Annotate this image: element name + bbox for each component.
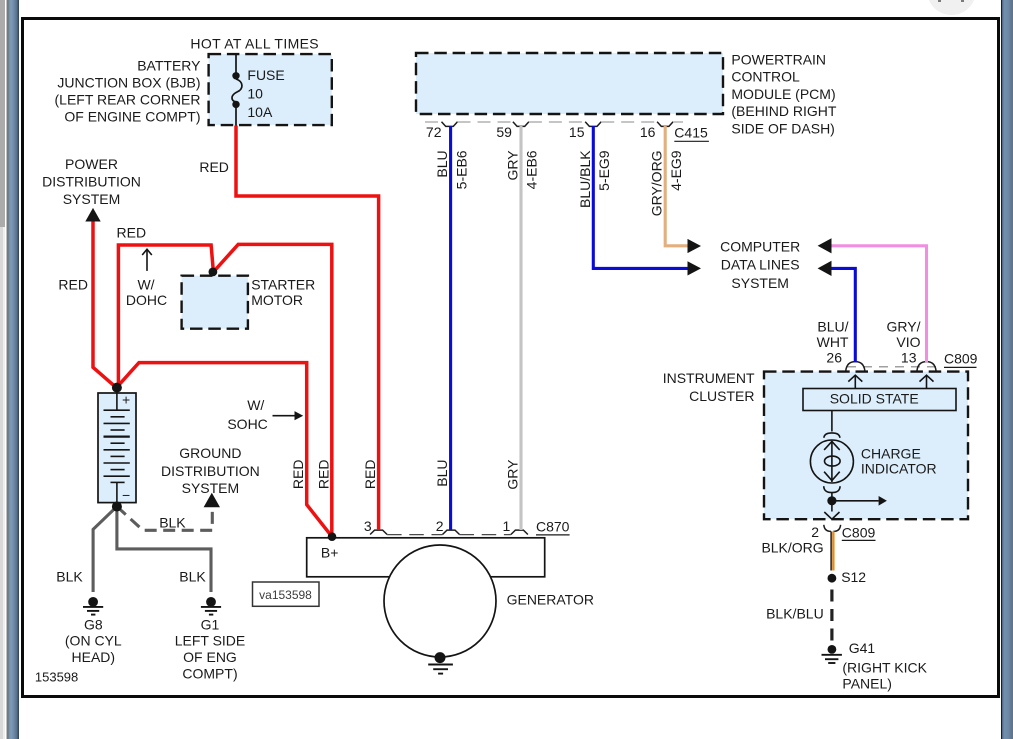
svg-text:RED: RED bbox=[199, 159, 229, 175]
svg-text:RED: RED bbox=[117, 224, 147, 240]
svg-text:VIO: VIO bbox=[896, 334, 920, 350]
svg-text:(LEFT REAR CORNER: (LEFT REAR CORNER bbox=[55, 92, 201, 108]
svg-text:CONTROL: CONTROL bbox=[731, 69, 800, 85]
svg-text:DISTRIBUTION: DISTRIBUTION bbox=[42, 174, 141, 190]
svg-text:BLK/BLU: BLK/BLU bbox=[766, 606, 824, 622]
svg-text:5-EG9: 5-EG9 bbox=[596, 150, 612, 191]
svg-text:DOHC: DOHC bbox=[126, 292, 167, 308]
svg-text:1: 1 bbox=[503, 518, 511, 534]
svg-text:STARTER: STARTER bbox=[251, 277, 315, 293]
svg-text:COMPUTER: COMPUTER bbox=[720, 238, 800, 254]
svg-text:4-EG9: 4-EG9 bbox=[668, 150, 684, 191]
svg-text:(BEHIND RIGHT: (BEHIND RIGHT bbox=[731, 103, 836, 119]
svg-text:CLUSTER: CLUSTER bbox=[689, 388, 754, 404]
svg-text:HOT AT ALL TIMES: HOT AT ALL TIMES bbox=[190, 36, 319, 52]
svg-text:15: 15 bbox=[569, 124, 585, 140]
svg-text:DISTRIBUTION: DISTRIBUTION bbox=[161, 463, 260, 479]
svg-text:BLU/: BLU/ bbox=[817, 319, 848, 335]
svg-text:SIDE OF DASH): SIDE OF DASH) bbox=[731, 120, 834, 136]
svg-text:RED: RED bbox=[362, 460, 378, 490]
svg-text:(ON CYL: (ON CYL bbox=[65, 633, 122, 649]
svg-text:HEAD): HEAD) bbox=[72, 649, 116, 665]
svg-text:POWER: POWER bbox=[65, 156, 118, 172]
svg-text:3: 3 bbox=[364, 518, 372, 534]
svg-text:5-EB6: 5-EB6 bbox=[453, 150, 469, 189]
svg-text:BLU: BLU bbox=[434, 150, 450, 177]
svg-text:FUSE: FUSE bbox=[247, 67, 284, 83]
svg-text:LEFT SIDE: LEFT SIDE bbox=[175, 633, 246, 649]
svg-text:SYSTEM: SYSTEM bbox=[731, 275, 789, 291]
svg-text:INSTRUMENT: INSTRUMENT bbox=[663, 370, 755, 386]
svg-text:MODULE (PCM): MODULE (PCM) bbox=[731, 86, 835, 102]
svg-text:W/: W/ bbox=[247, 397, 264, 413]
svg-text:2: 2 bbox=[436, 518, 444, 534]
svg-text:153598: 153598 bbox=[35, 670, 78, 685]
svg-text:4-EB6: 4-EB6 bbox=[524, 150, 540, 189]
svg-text:BATTERY: BATTERY bbox=[137, 57, 201, 73]
svg-text:G41: G41 bbox=[849, 640, 876, 656]
svg-text:C870: C870 bbox=[536, 519, 570, 535]
svg-text:(RIGHT KICK: (RIGHT KICK bbox=[842, 659, 927, 675]
svg-text:C809: C809 bbox=[944, 351, 978, 367]
svg-text:RED: RED bbox=[290, 460, 306, 490]
svg-text:SOHC: SOHC bbox=[227, 416, 267, 432]
svg-text:BLK: BLK bbox=[159, 515, 186, 531]
svg-text:G8: G8 bbox=[84, 616, 103, 632]
svg-text:26: 26 bbox=[826, 350, 842, 366]
svg-text:72: 72 bbox=[426, 124, 442, 140]
svg-text:BLU/BLK: BLU/BLK bbox=[577, 150, 593, 208]
svg-text:POWERTRAIN: POWERTRAIN bbox=[731, 52, 826, 68]
svg-text:−: − bbox=[122, 487, 130, 503]
svg-text:INDICATOR: INDICATOR bbox=[861, 460, 937, 476]
svg-text:CHARGE: CHARGE bbox=[861, 445, 921, 461]
svg-text:SYSTEM: SYSTEM bbox=[182, 480, 240, 496]
svg-text:RED: RED bbox=[315, 460, 331, 490]
svg-text:va153598: va153598 bbox=[259, 588, 312, 602]
svg-text:SYSTEM: SYSTEM bbox=[63, 191, 121, 207]
svg-text:10A: 10A bbox=[247, 104, 273, 120]
svg-text:OF ENGINE COMPT): OF ENGINE COMPT) bbox=[64, 109, 200, 125]
svg-text:BLK: BLK bbox=[179, 568, 206, 584]
svg-text:PANEL): PANEL) bbox=[842, 676, 892, 692]
svg-text:OF ENG: OF ENG bbox=[183, 649, 237, 665]
svg-text:S12: S12 bbox=[841, 569, 866, 585]
svg-text:C809: C809 bbox=[842, 524, 876, 540]
svg-text:GRY: GRY bbox=[505, 150, 521, 181]
svg-text:BLU: BLU bbox=[434, 460, 450, 487]
svg-text:2: 2 bbox=[811, 524, 819, 540]
svg-text:C415: C415 bbox=[674, 124, 708, 140]
svg-text:BLK: BLK bbox=[56, 568, 83, 584]
svg-text:B+: B+ bbox=[321, 544, 339, 560]
svg-text:BLK/ORG: BLK/ORG bbox=[761, 540, 823, 556]
svg-text:RED: RED bbox=[58, 277, 88, 293]
svg-text:+: + bbox=[122, 391, 130, 407]
svg-text:MOTOR: MOTOR bbox=[251, 292, 303, 308]
svg-text:10: 10 bbox=[247, 86, 263, 102]
svg-text:G1: G1 bbox=[201, 616, 220, 632]
svg-text:GRY: GRY bbox=[505, 459, 521, 490]
svg-text:16: 16 bbox=[640, 124, 656, 140]
svg-text:13: 13 bbox=[901, 350, 917, 366]
svg-text:DATA LINES: DATA LINES bbox=[721, 257, 800, 273]
svg-text:COMPT): COMPT) bbox=[182, 665, 237, 681]
svg-text:GENERATOR: GENERATOR bbox=[507, 591, 594, 607]
svg-text:JUNCTION BOX (BJB): JUNCTION BOX (BJB) bbox=[57, 74, 200, 90]
svg-text:W/: W/ bbox=[137, 277, 154, 293]
svg-text:WHT: WHT bbox=[817, 334, 849, 350]
svg-text:GRY/: GRY/ bbox=[887, 319, 921, 335]
svg-text:SOLID STATE: SOLID STATE bbox=[830, 391, 919, 407]
svg-text:GRY/ORG: GRY/ORG bbox=[649, 150, 665, 216]
svg-text:GROUND: GROUND bbox=[179, 445, 241, 461]
svg-text:59: 59 bbox=[496, 124, 512, 140]
